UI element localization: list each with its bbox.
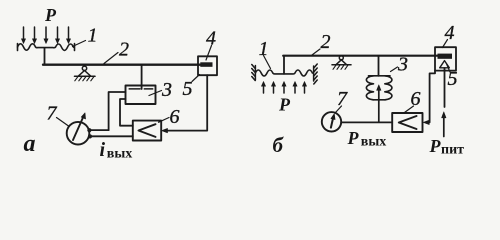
wire transducer 4 to amplifier 6 (diagram a) (166, 75, 207, 130)
output wire P_vyh: meter to amplifier 6 (diagram b) (341, 121, 392, 123)
wire meter lower terminal to amplifier 6 (diagram a) (92, 135, 133, 137)
svg-text:пит: пит (441, 143, 464, 158)
wire meter upper terminal (diagram a) (91, 129, 109, 131)
nozzle 5 (diagram b) (440, 61, 450, 68)
svg-text:7: 7 (47, 103, 58, 125)
supply arrow P_pit (diagram b) (443, 117, 445, 137)
membrane 1 (diagram a) (18, 44, 75, 51)
input wire: nozzle chamber to amplifier 6 (diagram b) (427, 71, 435, 123)
svg-text:вых: вых (361, 135, 387, 150)
wire coil 3 to meter 7 (diagram a) (109, 92, 126, 130)
svg-text:3: 3 (161, 79, 172, 101)
svg-text:6: 6 (170, 106, 180, 128)
amplifier 6 (diagram b) (392, 113, 422, 132)
svg-text:P: P (278, 95, 291, 115)
svg-text:2: 2 (119, 39, 129, 61)
svg-text:7: 7 (337, 88, 348, 110)
membrane 1 (diagram b) (255, 70, 312, 76)
left wall (diagram b) (252, 65, 256, 81)
flapper 4 (diagram b) (438, 54, 453, 59)
svg-text:P: P (429, 136, 442, 156)
svg-text:5: 5 (183, 78, 193, 100)
junction dot upper (diagram a) (87, 128, 91, 132)
link membrane to beam (diagram a) (44, 48, 46, 64)
pressure arrows (diagram b, pointing up) (261, 82, 306, 94)
svg-text:2: 2 (321, 31, 331, 53)
fulcrum (diagram b) (332, 56, 351, 70)
svg-text:4: 4 (445, 22, 455, 44)
amplifier 6 (diagram a) (133, 121, 161, 141)
junction dot lower (diagram a) (88, 134, 92, 138)
transducer 4 (diagram a): box with plunger core (198, 56, 217, 75)
transducer 4 box (diagram b) (435, 47, 456, 70)
svg-text:P: P (44, 5, 57, 25)
wire coil 3 to amplifier 6 (diagram a) (120, 99, 133, 126)
feedback bellows 3 (diagram b) (366, 76, 392, 100)
link membrane to beam (diagram b) (283, 56, 285, 74)
svg-text:б: б (273, 133, 285, 157)
right wall (diagram b) (314, 64, 318, 84)
meter 7 (diagram b) (322, 112, 341, 131)
svg-text:а: а (24, 131, 36, 157)
svg-text:P: P (347, 128, 360, 148)
svg-text:1: 1 (88, 25, 98, 47)
svg-text:i: i (100, 139, 106, 161)
fulcrum (diagram a) (75, 66, 96, 81)
beam 2 (diagram b) (283, 55, 438, 57)
svg-text:3: 3 (397, 54, 408, 76)
beam 2 (diagram a) (43, 64, 200, 66)
feedback coil 3 (diagram a): box with slot and plunger (126, 86, 156, 105)
pressure arrows (diagram a) (21, 27, 70, 44)
link beam to bellows 3 (diagram b) (378, 57, 380, 76)
plunger from beam into coil 3 (diagram a) (141, 66, 143, 90)
supply channel under nozzle (diagram b) (444, 68, 446, 107)
svg-text:5: 5 (448, 68, 458, 90)
meter 7 (diagram a) (67, 122, 90, 145)
feedback line with up arrow into bellows (diagram b) (378, 88, 380, 123)
svg-text:вых: вых (107, 147, 133, 162)
